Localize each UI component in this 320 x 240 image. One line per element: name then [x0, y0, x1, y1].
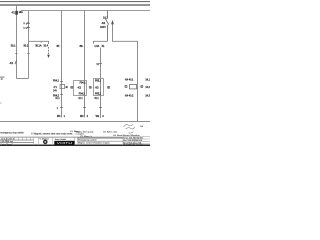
arrowhead down: [47, 55, 50, 58]
bus line L1 top: [0, 0, 150, 3]
right info rows: [123, 137, 150, 144]
svg-text:F05.2: F05.2: [95, 94, 102, 96]
left margin mark 1: [0, 77, 5, 78]
pin symbol left of K2: [71, 86, 73, 88]
pin symbol left of K4: [125, 85, 127, 87]
pin symbol right of K4: [141, 85, 143, 87]
terminal tick W5: [99, 107, 102, 109]
svg-text:Datum Bearb: Datum Bearb: [0, 143, 13, 146]
tick T2 on W2: [27, 53, 30, 55]
bus line L2: [0, 4, 150, 5]
svg-text:Magne. control shutdown engine: Magne. control shutdown engine: [78, 142, 110, 145]
frame line bottom of drawing area: [0, 120, 150, 122]
svg-text:24V: 24V: [53, 90, 58, 92]
wire U-bottom joining W1 and W2: [17, 78, 29, 80]
svg-text:30.2: 30.2: [23, 44, 29, 48]
svg-text:F05.1: F05.1: [95, 81, 102, 83]
terminal tick W3: [60, 107, 63, 109]
svg-text:30.1A: 30.1A: [35, 45, 42, 48]
svg-text:-K4 40.1: -K4 40.1: [125, 79, 134, 81]
wire W1 (from L2 down, left branch): [16, 5, 18, 79]
wire H2: [94, 41, 108, 43]
tick on W5: [99, 63, 102, 65]
svg-text:86.: 86.: [80, 44, 84, 48]
svg-text:V. Magnet, samme sted som moto: V. Magnet, samme sted som motor mont.: [31, 132, 73, 135]
svg-text:43.1: 43.1: [94, 98, 99, 100]
svg-text:-Y1: -Y1: [53, 86, 57, 89]
svg-text:14.3: 14.3: [145, 95, 150, 97]
svg-text:M: M: [66, 87, 68, 89]
svg-text:14.1: 14.1: [145, 79, 150, 81]
svg-text:-K4 40.2: -K4 40.2: [125, 96, 134, 98]
contact S1a on wire W2: [26, 22, 30, 24]
svg-text:Emergency control: Emergency control: [78, 139, 97, 142]
svg-text:41.1: 41.1: [55, 98, 60, 100]
svg-text:F04.1: F04.1: [53, 80, 60, 82]
left section line 3: [0, 141, 34, 143]
wire W3 (x62): [61, 11, 63, 118]
svg-text:-F1: -F1: [11, 10, 15, 14]
svg-text:F04.2: F04.2: [79, 94, 86, 96]
tick on W3 top of valve: [60, 81, 63, 83]
svg-text:V4. Bohn units: V4. Bohn units: [103, 130, 118, 133]
terminal tick W4: [83, 107, 86, 109]
relay box K2: [74, 81, 87, 96]
svg-text:14.2: 14.2: [145, 87, 150, 89]
svg-text:30.4: 30.4: [43, 45, 48, 48]
contact K1 on W1: [15, 60, 17, 64]
svg-text:Bl. 4 von 7 Bl. 214 302: Bl. 4 von 7 Bl. 214 302: [123, 144, 142, 146]
switch S2 from L3: [105, 11, 109, 42]
svg-text:16A: 16A: [19, 11, 24, 14]
dashed off-page wire below stub: [48, 47, 50, 56]
svg-text:-S2: -S2: [101, 21, 106, 25]
fuse F1: [15, 11, 17, 15]
svg-text:10.1: 10.1: [103, 17, 108, 20]
svg-text:1.5A: 1.5A: [94, 45, 99, 48]
svg-text:87.: 87.: [57, 44, 61, 48]
valve Y1: [60, 85, 65, 89]
relay box K3: [94, 79, 104, 96]
wire W2 riser: [28, 11, 30, 79]
left margin mark 2: [1, 78, 3, 79]
svg-text:400V: 400V: [100, 26, 106, 29]
revision grid dividers: [3, 137, 135, 146]
arrowhead up: [111, 20, 114, 24]
mid section line 3: [77, 140, 123, 142]
svg-text:-K1: -K1: [9, 61, 14, 65]
pin symbol right of K2: [89, 86, 91, 88]
title block bottom thick line: [0, 144, 150, 146]
svg-text:VOITH: VOITH: [57, 141, 72, 145]
wire W4 (x85): [84, 11, 86, 118]
signature scribble: [124, 124, 136, 133]
logo banner: [54, 141, 74, 145]
svg-text:30.1: 30.1: [11, 44, 17, 48]
svg-text:NA: NA: [140, 125, 144, 128]
off-page arrow wire W6: [113, 22, 138, 122]
coil box K4: [130, 85, 137, 89]
tick below valve: [60, 94, 63, 96]
left section line 2: [0, 139, 34, 141]
wire W5 (x100.7): [100, 48, 102, 118]
mid section line 2: [77, 137, 123, 139]
wheel emblem: [43, 140, 48, 145]
contact S1b on wire W2: [26, 27, 30, 29]
svg-text:F04.1: F04.1: [80, 82, 87, 84]
svg-text:42.1: 42.1: [78, 98, 83, 100]
pin symbol right of K3: [107, 86, 109, 88]
tick T1 on W1: [15, 53, 18, 55]
wire H1 branch at y41: [29, 41, 49, 44]
bus line L3 (switched feed): [21, 10, 150, 12]
title block top line: [0, 136, 123, 138]
left margin mark 3: [0, 102, 2, 105]
svg-text:emergency stop switch: emergency stop switch: [0, 132, 24, 135]
